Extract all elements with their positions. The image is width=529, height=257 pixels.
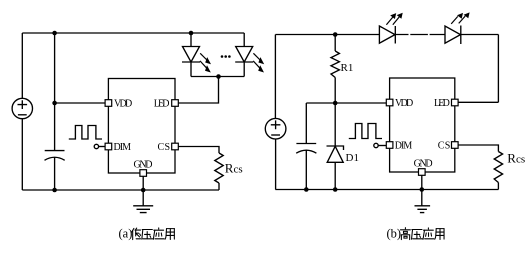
- wire: DIM terminal to pin (a): [99, 146, 106, 148]
- LED D5 emission arrows: [451, 16, 465, 24]
- resistor R1 zigzag: [331, 51, 339, 78]
- capacitor C2 top plate: [296, 143, 316, 145]
- wire: GND pin to rail (b): [421, 175, 423, 206]
- wire: LED cathode rail (a): [191, 76, 244, 78]
- wire: CS pin to Rcs (b): [458, 145, 498, 152]
- caption (b) char 应: [423, 228, 434, 239]
- LED D2 triangle (a): [183, 47, 200, 63]
- op-amp U1 body (IC box a): [108, 79, 175, 174]
- caption (a) char 用: [165, 229, 174, 240]
- wire: left vertical upper (a): [21, 33, 23, 98]
- ellipsis dots between LEDs (a): [221, 55, 224, 58]
- svg-text:LED: LED: [434, 98, 450, 109]
- pin CS square (a): [172, 143, 179, 150]
- voltage source V2 circle: [265, 118, 286, 139]
- wire: R1 lower lead: [334, 78, 336, 104]
- pin LED square (a): [172, 100, 179, 107]
- wire: LED D2 cathode lead: [190, 62, 192, 77]
- svg-text:GND: GND: [414, 159, 433, 170]
- pin VDD square (a): [105, 100, 112, 107]
- voltage source V1 minus sign: [18, 114, 27, 116]
- zener D1 cathode bar: [327, 146, 344, 150]
- voltage source V1 plus sign: [18, 100, 28, 109]
- wire: LED pin feed (b): [458, 101, 498, 103]
- voltage source V2 plus sign: [271, 120, 281, 129]
- caption (a) char 低: [132, 228, 141, 240]
- wire: mid rail VDD (b): [306, 102, 386, 104]
- svg-text:GND: GND: [134, 160, 153, 171]
- svg-text:CS: CS: [158, 142, 171, 153]
- LED D2 cathode bar: [182, 61, 200, 63]
- node: R1/D1 mid-rail junction: [333, 101, 338, 106]
- LED D4 cathode bar: [394, 26, 396, 44]
- pin DIM square (a): [105, 143, 112, 150]
- resistor Rcs zigzag (a): [215, 153, 223, 183]
- LED D3 cathode bar: [235, 61, 253, 63]
- PWM square wave (b): [349, 124, 382, 139]
- wire: Rcs to bottom rail (a): [218, 183, 220, 190]
- LED D5 cathode bar: [460, 26, 462, 45]
- PWM square wave (a): [69, 126, 102, 140]
- resistor Rcs zigzag (b): [494, 152, 502, 183]
- wire: D1 cathode lead: [334, 103, 336, 146]
- wire: LED1 anode lead (a): [190, 33, 192, 47]
- LED D3 emission arrows: [253, 53, 260, 68]
- pin GND square (a): [140, 170, 147, 177]
- caption (b) char 压: [412, 229, 423, 239]
- caption (b) char 用: [435, 229, 444, 240]
- voltage source V1 circle: [12, 98, 32, 118]
- ground symbol (a): [133, 206, 153, 213]
- LED D4 emission arrows: [386, 17, 399, 25]
- node: GND rail junction (b): [420, 187, 425, 192]
- node: LED string junction (a): [216, 74, 221, 79]
- caption (b) char 高: [400, 228, 410, 240]
- node: VDD tap junction: [52, 101, 57, 106]
- wire: cap C2 to bottom rail: [305, 150, 307, 189]
- svg-text:R: R: [225, 160, 234, 175]
- wire: D1 anode lead: [334, 162, 336, 189]
- capacitor C1 top plate: [45, 150, 65, 152]
- wire: LED2 to right corner (b): [461, 34, 499, 36]
- wire: bottom rail (b): [275, 189, 498, 191]
- capacitor C2 curved plate: [296, 150, 316, 153]
- svg-text:DIM: DIM: [395, 140, 413, 151]
- wire: right vertical (b): [497, 35, 499, 103]
- node: D1 bottom junction: [333, 187, 338, 192]
- pin GND square (b): [419, 169, 426, 176]
- op-amp U2 body (IC box b): [390, 78, 455, 172]
- LED D3 triangle (a): [236, 47, 253, 63]
- caption (a) char 压: [142, 229, 153, 239]
- node: cap C1 bottom rail junction: [52, 188, 57, 193]
- pin DIM square (b): [386, 142, 393, 149]
- svg-text:cs: cs: [234, 163, 243, 175]
- wire: cap C2 upper lead: [305, 103, 307, 143]
- wire: LED D3 cathode lead: [243, 62, 245, 77]
- svg-text:LED: LED: [154, 98, 170, 109]
- capacitor C1 curved plate: [45, 157, 65, 160]
- pin LED square (b): [452, 99, 459, 106]
- wire: CS pin to Rcs (a): [178, 147, 219, 154]
- node: cap C2 bottom junction: [304, 187, 309, 192]
- svg-text:(b): (b): [387, 227, 402, 241]
- wire: dashed LED string segment: [395, 34, 445, 36]
- wire: left vertical lower (a): [21, 119, 23, 190]
- svg-text:cs: cs: [516, 154, 525, 166]
- wire: top rail (b): [275, 34, 379, 36]
- wire: DIM terminal to pin (b): [378, 145, 386, 147]
- LED D2 emission arrows: [200, 53, 207, 68]
- svg-text:R1: R1: [341, 62, 354, 74]
- node: R1 top junction: [333, 32, 338, 37]
- node: top rail / cap branch junction: [52, 31, 57, 36]
- svg-text:D1: D1: [346, 152, 359, 164]
- pin VDD square (b): [386, 99, 393, 106]
- wire: bottom rail (a): [22, 189, 219, 191]
- svg-text:(a): (a): [119, 227, 133, 241]
- DIM input terminal circle (b): [374, 143, 378, 147]
- svg-text:R: R: [507, 151, 516, 166]
- LED D4 triangle (b): [379, 26, 395, 43]
- wire: GND pin to rail (a): [142, 176, 144, 206]
- zener D1 triangle: [327, 146, 343, 162]
- voltage source V2 minus sign: [271, 134, 280, 136]
- wire: top rail (a): [22, 32, 244, 34]
- svg-text:CS: CS: [438, 140, 451, 151]
- node: LED1 anode junction: [189, 31, 194, 36]
- wire: LED pin to LED string (a): [178, 77, 218, 104]
- pin CS square (b): [452, 142, 459, 149]
- wire: mid vertical x=54.6 (a): [54, 33, 56, 151]
- svg-text:VDD: VDD: [114, 98, 132, 109]
- ground symbol (b): [415, 206, 431, 213]
- svg-text:VDD: VDD: [395, 98, 413, 109]
- svg-text:DIM: DIM: [114, 142, 132, 153]
- wire: left vertical upper (b): [274, 35, 276, 119]
- wire: Rcs to bottom rail (b): [497, 183, 499, 190]
- DIM input terminal circle (a): [94, 144, 98, 148]
- wire: LED2 anode lead (a): [243, 33, 245, 47]
- wire: cap C1 to bottom rail: [54, 157, 56, 190]
- wire: left vertical lower (b): [275, 139, 277, 190]
- wire: R1 upper lead: [334, 35, 336, 52]
- wire: VDD feed (a): [55, 102, 106, 104]
- caption (a) char 应: [153, 228, 164, 239]
- LED D5 triangle (b): [445, 26, 461, 43]
- node: GND rail junction (a): [141, 188, 146, 193]
